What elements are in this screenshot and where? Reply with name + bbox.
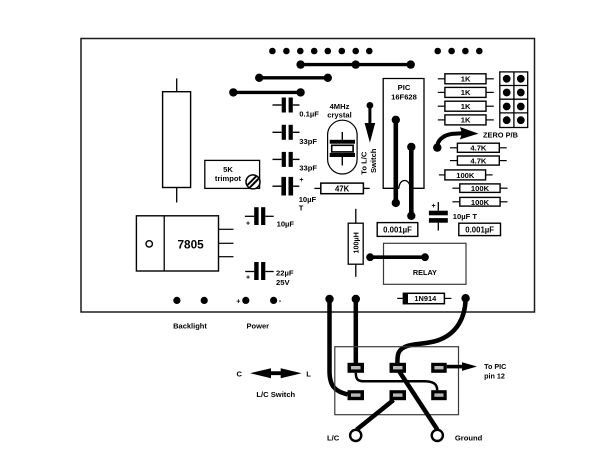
svg-text:10µF: 10µF [277, 219, 295, 228]
resistor 47K [314, 183, 369, 194]
wire W3 [229, 88, 305, 96]
PIC wire 1 [392, 116, 400, 207]
power pads [236, 296, 281, 330]
svg-text:crystal: crystal [327, 111, 352, 120]
svg-text:Ground: Ground [455, 434, 483, 443]
ZERO P/B curved arrow [433, 127, 518, 152]
svg-text:47K: 47K [335, 184, 350, 193]
svg-text:+: + [246, 275, 250, 282]
switch terminal B1 [348, 390, 365, 400]
capacitor 0.001uF (right box) [459, 223, 501, 235]
wire W2 [255, 74, 332, 82]
svg-text:+: + [432, 203, 436, 210]
svg-text:trimpot: trimpot [215, 174, 242, 183]
PIC wire 2 [407, 143, 415, 220]
svg-text:ZERO P/B: ZERO P/B [483, 130, 518, 139]
L/C switch double arrow [236, 368, 311, 399]
wire B (board to switch T1) [352, 295, 360, 364]
svg-text:33pF: 33pF [299, 164, 317, 173]
crystal 4MHz [327, 102, 357, 174]
svg-text:RELAY: RELAY [413, 268, 437, 277]
svg-text:10µF T: 10µF T [453, 212, 478, 221]
svg-text:25V: 25V [276, 278, 290, 287]
switch terminal T1 [348, 363, 365, 373]
svg-text:16F628: 16F628 [391, 92, 417, 101]
svg-text:Power: Power [247, 321, 270, 330]
relay wire [366, 253, 429, 261]
switch terminal B2 [390, 390, 407, 400]
svg-text:Switch: Switch [369, 148, 378, 173]
svg-text:22µF: 22µF [276, 268, 294, 277]
arrow to PIC pin 12 [447, 362, 507, 381]
inductor 100uH [348, 209, 363, 277]
svg-text:0.001µF: 0.001µF [383, 226, 412, 235]
capacitor 0.001uF (left box) [377, 223, 418, 237]
L/C switch box [335, 347, 459, 415]
svg-text:+: + [236, 296, 240, 305]
capacitor 10uF tantalum [273, 177, 317, 213]
vertical component (unlabelled resistor) [163, 78, 191, 202]
resistor 4.7K (1) [450, 143, 507, 152]
wire B2 to L/C [357, 400, 394, 430]
svg-text:+: + [299, 177, 303, 184]
switch terminal B3 [431, 390, 447, 400]
svg-text:4.7K: 4.7K [470, 144, 487, 153]
svg-text:+: + [246, 220, 250, 227]
svg-text:L/C: L/C [327, 434, 340, 443]
svg-text:5K: 5K [223, 165, 233, 174]
wire A (board to switch B1) [325, 295, 347, 395]
resistor 100K (2) [452, 184, 507, 193]
capacitor 33pF (lower) [273, 152, 318, 173]
switch terminal T2 [390, 363, 407, 373]
pad row right group (4 solder pads) [434, 48, 482, 55]
trace T1 to B3 [356, 373, 437, 391]
wire W1 [296, 60, 415, 68]
svg-text:PIC: PIC [398, 83, 411, 92]
svg-text:100K: 100K [471, 184, 490, 193]
resistor 4.7K (2) [450, 156, 507, 165]
svg-text:To L/C: To L/C [359, 151, 368, 175]
resistor 100K (1) [439, 170, 493, 180]
resistor 100K (3) [452, 197, 507, 206]
svg-text:100µH: 100µH [351, 232, 360, 253]
svg-text:pin 12: pin 12 [484, 372, 505, 381]
header 2x4 with pads [500, 72, 528, 128]
svg-text:0.1µF: 0.1µF [299, 109, 319, 118]
Ground terminal [432, 430, 483, 443]
svg-text:1K: 1K [461, 102, 471, 111]
L/C terminal [327, 430, 361, 443]
svg-text:L/C Switch: L/C Switch [256, 390, 295, 399]
svg-text:100K: 100K [456, 171, 475, 180]
LCD pad row (8 solder pads) [269, 48, 373, 55]
capacitor 33pF (upper) [273, 125, 318, 146]
switch terminal T3 [431, 363, 447, 373]
resistor 1K (3) [438, 101, 494, 111]
svg-text:C: C [236, 369, 242, 378]
diode 1N914 [397, 293, 451, 303]
capacitor 10uF (near 7805) [245, 207, 295, 228]
svg-text:1K: 1K [461, 75, 471, 84]
resistor 1K (2) [438, 87, 494, 97]
svg-text:L: L [306, 369, 311, 378]
svg-text:100K: 100K [471, 198, 490, 207]
svg-text:1K: 1K [461, 88, 471, 97]
resistor 1K (4) [438, 115, 494, 125]
capacitor 10uF T (vertical) [429, 202, 477, 231]
svg-text:To PIC: To PIC [484, 362, 506, 371]
svg-text:4.7K: 4.7K [470, 156, 487, 165]
svg-text:33pF: 33pF [299, 137, 317, 146]
svg-text:1K: 1K [461, 116, 471, 125]
svg-text:7805: 7805 [177, 237, 204, 251]
svg-text:1N914: 1N914 [414, 294, 437, 303]
trimpot 5K [205, 160, 261, 189]
arrow to L/C switch [359, 102, 378, 175]
relay box [384, 243, 467, 284]
wire T2 to Ground [399, 372, 437, 430]
board outline [81, 39, 535, 313]
svg-text:Backlight: Backlight [173, 321, 207, 330]
svg-text:0.001µF: 0.001µF [465, 226, 494, 235]
PIC 16F628 box (bottom edge hops over wire) [383, 79, 424, 189]
capacitor 22uF 25V [245, 262, 294, 287]
backlight pads [173, 297, 208, 331]
regulator 7805 [136, 216, 233, 271]
svg-text:T: T [299, 203, 304, 212]
capacitor 0.1uF [273, 98, 320, 119]
resistor 1K (1) [438, 74, 494, 84]
wire C (diode node to switch T2, S-curve) [397, 294, 469, 364]
